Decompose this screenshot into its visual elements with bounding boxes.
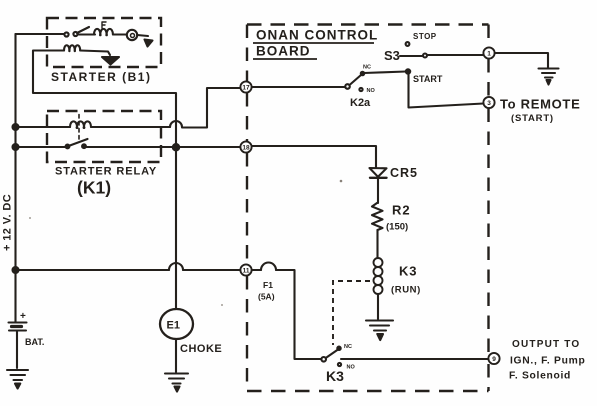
svg-text:9: 9: [492, 356, 496, 363]
svg-text:STARTER RELAY: STARTER RELAY: [55, 166, 157, 178]
svg-text:17: 17: [242, 85, 250, 92]
svg-text:NC: NC: [363, 65, 371, 71]
svg-text:(5A): (5A): [258, 292, 275, 302]
svg-text:START: START: [413, 74, 443, 84]
svg-text:+: +: [20, 311, 26, 322]
svg-text:OUTPUT TO: OUTPUT TO: [512, 339, 580, 350]
svg-text:CHOKE: CHOKE: [180, 343, 222, 355]
svg-text:K3: K3: [326, 368, 344, 384]
svg-text:+ 12 V. DC: + 12 V. DC: [2, 194, 14, 251]
svg-text:18: 18: [242, 145, 250, 152]
svg-text:NO: NO: [347, 365, 356, 371]
svg-text:ONAN CONTROL: ONAN CONTROL: [256, 28, 378, 43]
svg-text:K2a: K2a: [350, 97, 371, 109]
svg-text:3: 3: [487, 100, 491, 107]
svg-text:11: 11: [243, 268, 250, 275]
svg-text:STOP: STOP: [413, 32, 437, 41]
svg-text:STARTER (B1): STARTER (B1): [51, 70, 151, 84]
svg-text:F. Solenoid: F. Solenoid: [509, 371, 571, 382]
svg-text:S3: S3: [384, 48, 400, 63]
svg-text:E1: E1: [167, 320, 180, 332]
svg-text:(K1): (K1): [77, 178, 111, 198]
svg-text:NC: NC: [344, 344, 352, 350]
svg-text:(RUN): (RUN): [391, 285, 421, 296]
svg-text:(150): (150): [386, 222, 408, 233]
svg-text:To REMOTE: To REMOTE: [500, 97, 580, 112]
svg-text:BOARD: BOARD: [256, 44, 311, 59]
svg-text:CR5: CR5: [390, 166, 418, 180]
svg-text:IGN., F. Pump: IGN., F. Pump: [510, 356, 585, 367]
svg-text:NO: NO: [367, 88, 376, 94]
svg-text:K3: K3: [399, 264, 417, 279]
svg-text:1: 1: [487, 51, 491, 58]
svg-text:F1: F1: [263, 280, 273, 290]
svg-text:R2: R2: [392, 203, 411, 218]
svg-text:BAT.: BAT.: [25, 337, 44, 347]
svg-text:(START): (START): [511, 113, 554, 124]
